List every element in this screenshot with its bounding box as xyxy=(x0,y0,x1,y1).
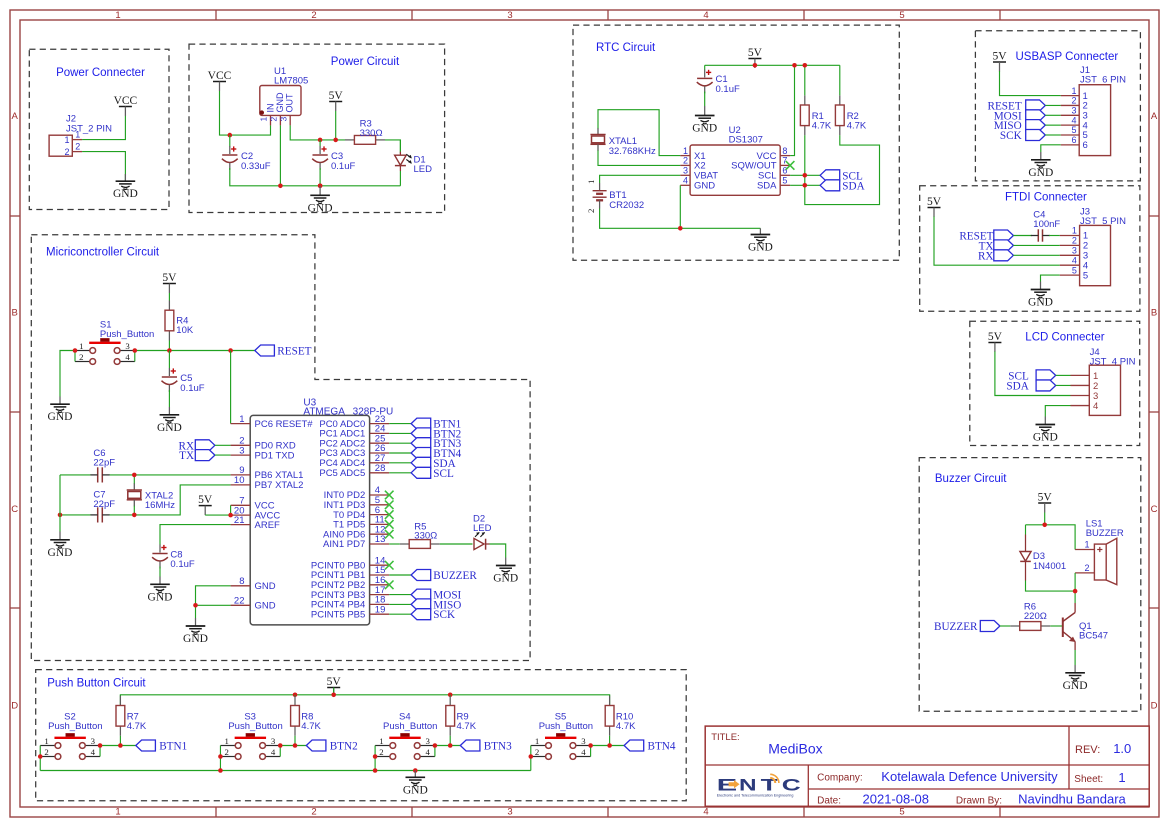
net flag RESET xyxy=(988,100,1046,112)
wire D3 bottom to collector node xyxy=(1026,581,1076,592)
svg-text:1: 1 xyxy=(75,130,80,140)
svg-text:5V: 5V xyxy=(927,196,942,208)
svg-text:10: 10 xyxy=(234,475,245,486)
svg-text:PC5 ADC5: PC5 ADC5 xyxy=(319,468,365,479)
diode D3 1N4001 xyxy=(1020,525,1066,581)
svg-text:RX: RX xyxy=(978,250,994,262)
svg-text:3: 3 xyxy=(581,736,586,746)
svg-text:Push_Button: Push_Button xyxy=(539,721,593,732)
wire R8 top xyxy=(294,695,296,696)
svg-text:5: 5 xyxy=(1083,270,1088,281)
junction xyxy=(803,173,808,178)
svg-text:3: 3 xyxy=(683,166,688,176)
svg-text:5V: 5V xyxy=(162,272,177,284)
wire S1 left to ground xyxy=(60,351,75,397)
wire button left drop xyxy=(39,757,41,771)
ground xyxy=(308,184,333,215)
wire RTC 5V rail xyxy=(705,64,840,66)
wire xyxy=(1013,254,1059,256)
resistor R7 4.7K xyxy=(116,696,147,736)
svg-text:T: T xyxy=(761,776,778,794)
svg-text:0.1uF: 0.1uF xyxy=(716,84,740,95)
svg-text:Power Circuit: Power Circuit xyxy=(331,56,400,68)
resistor R10 4.7K xyxy=(605,696,636,736)
region RTC Circuit xyxy=(573,25,899,260)
net flag SDA xyxy=(820,180,865,193)
ground xyxy=(48,532,73,559)
wire J3 pin5 to ground xyxy=(1041,275,1060,281)
svg-text:OUT: OUT xyxy=(284,93,294,113)
resistor R5 330R xyxy=(400,521,440,548)
speaker LS1 BUZZER xyxy=(1075,519,1124,585)
wire xyxy=(1045,124,1060,126)
region Push Button Circuit xyxy=(36,670,687,801)
crystal XTAL2 16MHz xyxy=(127,483,176,511)
svg-text:13: 13 xyxy=(375,534,386,545)
battery BT1 CR2032 xyxy=(586,180,644,213)
junction xyxy=(678,226,683,231)
svg-text:21: 21 xyxy=(234,515,245,526)
svg-text:AIN1 PD7: AIN1 PD7 xyxy=(323,539,365,550)
svg-text:GND: GND xyxy=(493,573,518,585)
svg-text:3: 3 xyxy=(1072,246,1077,256)
wire xyxy=(389,432,411,434)
wire R10 top xyxy=(609,695,611,696)
wire C3 to bottom rail xyxy=(319,168,321,186)
wire button to flag xyxy=(280,745,306,747)
no-connect xyxy=(385,510,394,519)
wire AREF to C8 xyxy=(160,525,231,545)
ground xyxy=(1033,417,1058,444)
junction xyxy=(218,768,223,773)
ground xyxy=(113,174,138,200)
5V net flag xyxy=(748,47,763,68)
svg-text:N: N xyxy=(739,776,757,794)
svg-text:1: 1 xyxy=(1071,86,1076,96)
svg-text:1: 1 xyxy=(1085,540,1090,550)
svg-text:2: 2 xyxy=(268,117,278,122)
5V net flag xyxy=(988,331,1003,352)
svg-text:Kotelawala Defence University: Kotelawala Defence University xyxy=(881,769,1058,784)
net flag SCL xyxy=(1008,370,1055,383)
ground xyxy=(1028,152,1053,179)
junction xyxy=(318,184,323,189)
svg-text:SDA: SDA xyxy=(757,181,777,192)
wire button left drop xyxy=(530,757,532,771)
svg-text:DS1307: DS1307 xyxy=(729,135,763,146)
svg-text:Date:: Date: xyxy=(817,795,841,806)
svg-text:4: 4 xyxy=(91,747,96,757)
wire U2 pin6 SCL to flag xyxy=(790,174,820,176)
push button S2 xyxy=(40,711,102,759)
5V net flag xyxy=(162,272,177,293)
svg-text:BUZZER: BUZZER xyxy=(934,621,978,633)
svg-text:3: 3 xyxy=(507,10,512,21)
net flag SDA xyxy=(411,457,456,470)
ground xyxy=(148,577,173,604)
capacitor C5 0.1uF xyxy=(162,351,205,395)
net flag BUZZER xyxy=(934,621,1000,634)
net flag SCK xyxy=(1000,130,1045,143)
net flag MISO xyxy=(994,120,1046,132)
wire reset to U3 pin1 xyxy=(230,351,232,424)
svg-text:USBASP Connecter: USBASP Connecter xyxy=(1016,51,1119,63)
ground xyxy=(403,771,428,797)
wire R3 to D1 xyxy=(385,140,400,154)
net flag BTN1 xyxy=(136,740,187,753)
junction xyxy=(228,133,233,138)
connector J2 JST_2 PIN xyxy=(49,114,112,158)
junction xyxy=(448,743,453,748)
LED D1 xyxy=(395,140,433,175)
svg-text:GND: GND xyxy=(113,188,138,200)
wire U2 pin5 SDA to flag xyxy=(790,184,820,186)
wire VCC to U1 pin1 xyxy=(220,91,271,135)
net flag TX xyxy=(979,240,1014,253)
junction xyxy=(373,768,378,773)
svg-text:LED: LED xyxy=(473,523,492,534)
resistor R1 4.7K xyxy=(800,95,832,135)
capacitor C3 0.1uF xyxy=(312,140,355,172)
ground xyxy=(1028,282,1053,309)
svg-text:SCK: SCK xyxy=(433,609,455,621)
svg-text:0.1uF: 0.1uF xyxy=(180,383,204,394)
svg-text:SCL: SCL xyxy=(433,468,454,480)
svg-text:RESET: RESET xyxy=(277,346,311,358)
junction xyxy=(413,768,418,773)
wire xyxy=(389,613,411,615)
svg-text:GND: GND xyxy=(694,181,715,192)
wire xyxy=(389,452,411,454)
svg-text:VCC: VCC xyxy=(208,70,232,82)
svg-text:2: 2 xyxy=(683,156,688,166)
region Power Circuit xyxy=(189,44,445,212)
svg-text:2: 2 xyxy=(379,747,383,757)
junction xyxy=(193,603,198,608)
wire Q1 emitter to ground xyxy=(1074,650,1076,665)
wire R9 bottom xyxy=(449,736,451,746)
svg-text:REV:: REV: xyxy=(1075,744,1100,756)
svg-text:2: 2 xyxy=(64,147,69,157)
5V net flag xyxy=(327,676,342,697)
svg-text:RTC Circuit: RTC Circuit xyxy=(596,42,656,54)
wire button left drop xyxy=(374,757,376,771)
region FTDI Connecter xyxy=(920,186,1140,311)
svg-text:Navindhu Bandara: Navindhu Bandara xyxy=(1018,792,1126,807)
svg-text:3: 3 xyxy=(239,445,244,456)
regulator U1 LM7805 xyxy=(259,66,309,125)
svg-text:22pF: 22pF xyxy=(93,499,115,510)
svg-text:1: 1 xyxy=(1072,226,1077,236)
svg-text:5: 5 xyxy=(899,10,904,21)
svg-text:6: 6 xyxy=(1083,140,1088,151)
wire xyxy=(389,594,411,596)
svg-text:1: 1 xyxy=(683,146,688,156)
svg-text:SDA: SDA xyxy=(1006,380,1028,392)
junction xyxy=(803,183,808,188)
svg-text:BC547: BC547 xyxy=(1079,631,1108,642)
junction xyxy=(218,754,223,759)
push button S3 xyxy=(220,711,282,759)
svg-text:3: 3 xyxy=(425,736,430,746)
wire U1 pin3 output xyxy=(290,125,345,139)
svg-text:3: 3 xyxy=(1071,106,1076,116)
net flag BTN4 xyxy=(624,740,676,753)
net flag TX xyxy=(179,450,215,463)
5V net flag xyxy=(927,196,942,217)
wire R7 top xyxy=(119,695,121,696)
junction xyxy=(433,743,438,748)
svg-text:330Ω: 330Ω xyxy=(414,531,437,542)
wire U1 pin2 down xyxy=(279,125,281,185)
junction xyxy=(588,743,593,748)
svg-text:Power Connecter: Power Connecter xyxy=(56,67,145,79)
svg-text:LED: LED xyxy=(414,164,433,175)
svg-text:5: 5 xyxy=(782,176,787,186)
svg-text:GND: GND xyxy=(1028,297,1053,309)
svg-text:BTN2: BTN2 xyxy=(330,741,358,753)
net flag MISO xyxy=(411,599,461,612)
wire D2 to ground xyxy=(490,544,506,558)
wire xyxy=(389,472,411,474)
svg-text:1: 1 xyxy=(239,414,244,425)
junction xyxy=(803,63,808,68)
svg-text:PC6 RESET#: PC6 RESET# xyxy=(255,419,314,430)
junction xyxy=(228,513,233,518)
capacitor C2 0.33uF xyxy=(222,135,271,172)
svg-text:5: 5 xyxy=(1071,125,1076,135)
junction xyxy=(529,754,534,759)
svg-text:22pF: 22pF xyxy=(93,458,115,469)
crystal XTAL1 32.768KHz xyxy=(590,128,656,157)
wire xyxy=(389,442,411,444)
wire buzzer top rail xyxy=(1026,513,1076,550)
svg-text:C: C xyxy=(782,776,801,794)
no-connect xyxy=(385,581,394,590)
svg-text:6: 6 xyxy=(1071,135,1076,145)
svg-text:1: 1 xyxy=(79,341,83,351)
junction xyxy=(792,63,797,68)
wire 5V to R4 xyxy=(168,293,170,301)
svg-text:1: 1 xyxy=(586,180,596,184)
svg-text:BUZZER: BUZZER xyxy=(433,570,477,582)
svg-text:PB7 XTAL2: PB7 XTAL2 xyxy=(255,480,304,491)
svg-text:Micriconctroller Circuit: Micriconctroller Circuit xyxy=(46,247,160,259)
svg-text:3: 3 xyxy=(125,341,130,351)
svg-text:1: 1 xyxy=(115,10,120,21)
title block xyxy=(705,726,1149,806)
svg-text:BTN4: BTN4 xyxy=(648,741,676,753)
wire xyxy=(1045,104,1060,106)
svg-text:4: 4 xyxy=(1071,115,1076,125)
svg-text:GND: GND xyxy=(1028,167,1053,179)
ground xyxy=(1063,665,1088,692)
wire R9 top xyxy=(449,695,451,696)
svg-text:Push_Button: Push_Button xyxy=(383,721,437,732)
resistor R9 4.7K xyxy=(446,696,477,736)
transistor Q1 BC547 xyxy=(1063,603,1108,650)
connector J3 JST_5 PIN xyxy=(1060,207,1126,286)
svg-text:VCC: VCC xyxy=(114,95,138,107)
wire button to flag xyxy=(591,745,625,747)
svg-text:16MHz: 16MHz xyxy=(145,500,175,511)
junction xyxy=(132,513,137,518)
resistor R6 220R xyxy=(1010,602,1050,631)
region Buzzer Circuit xyxy=(919,458,1141,712)
ground xyxy=(748,228,773,253)
wire R8 bottom xyxy=(294,736,296,746)
svg-text:2: 2 xyxy=(586,209,596,213)
junction xyxy=(228,348,233,353)
wire R2 top to rail xyxy=(839,65,841,95)
wire R1 bottom SCL/SDA loop xyxy=(805,135,880,204)
svg-text:2021-08-08: 2021-08-08 xyxy=(863,792,930,807)
resistor R8 4.7K xyxy=(291,696,322,736)
svg-text:2: 2 xyxy=(44,747,48,757)
svg-text:FTDI Connecter: FTDI Connecter xyxy=(1005,192,1087,204)
wire xyxy=(215,454,231,456)
svg-text:5V: 5V xyxy=(992,51,1007,63)
junction xyxy=(132,473,137,478)
wire xyxy=(389,423,411,425)
svg-text:Drawn By:: Drawn By: xyxy=(956,795,1002,806)
svg-text:4: 4 xyxy=(581,747,586,757)
svg-text:5V: 5V xyxy=(327,676,342,688)
wire 5V to J3 pin4 xyxy=(934,217,1060,266)
5V net flag xyxy=(329,90,344,111)
net flag RESET xyxy=(255,345,312,358)
connector J1 JST_6 PIN xyxy=(1061,65,1126,156)
svg-text:1: 1 xyxy=(379,736,383,746)
ground xyxy=(493,558,518,585)
net flag MOSI xyxy=(411,589,461,602)
wire xyxy=(1045,114,1060,116)
svg-text:220Ω: 220Ω xyxy=(1024,611,1047,622)
wire LS1 pin2 down xyxy=(1074,573,1076,603)
5V net flag xyxy=(198,494,213,515)
junction xyxy=(73,348,78,353)
no-connect xyxy=(385,520,394,529)
wire XTAL1 top to U2 pin1 X1 xyxy=(598,110,680,156)
junction xyxy=(331,693,336,698)
wire J2 pin1 to VCC xyxy=(82,116,125,140)
svg-text:1: 1 xyxy=(1118,770,1125,785)
connector J4 JST_4 PIN xyxy=(1071,347,1136,415)
svg-text:JST_6 PIN: JST_6 PIN xyxy=(1080,75,1126,86)
junction xyxy=(98,743,103,748)
svg-text:3: 3 xyxy=(507,807,512,818)
svg-text:Push Button Circuit: Push Button Circuit xyxy=(47,678,146,690)
svg-text:C: C xyxy=(11,504,18,515)
svg-text:4.7K: 4.7K xyxy=(812,121,832,132)
svg-text:GND: GND xyxy=(157,422,182,434)
svg-text:1: 1 xyxy=(115,807,120,818)
svg-text:4: 4 xyxy=(1072,255,1077,265)
5V net flag xyxy=(1038,492,1053,513)
svg-text:JST_2 PIN: JST_2 PIN xyxy=(66,124,112,135)
svg-text:5V: 5V xyxy=(1038,492,1053,504)
wire pin13 to R5 xyxy=(389,543,400,545)
svg-text:2: 2 xyxy=(225,747,229,757)
5V net flag xyxy=(992,51,1007,72)
wire C8 to ground xyxy=(159,567,161,577)
junction xyxy=(278,743,283,748)
wire D1 to bottom rail xyxy=(399,171,401,186)
junction xyxy=(318,138,323,143)
wire R1 top to rail xyxy=(804,65,806,95)
wire J4 pin4 to ground xyxy=(1045,406,1070,417)
net flag RX xyxy=(179,440,215,453)
junction xyxy=(118,743,123,748)
svg-text:GND: GND xyxy=(1033,432,1058,444)
svg-text:100nF: 100nF xyxy=(1033,219,1060,230)
svg-text:GND: GND xyxy=(48,547,73,559)
svg-text:Company:: Company: xyxy=(817,773,863,784)
wire 5V top rail xyxy=(120,688,609,706)
svg-text:4.7K: 4.7K xyxy=(127,721,147,732)
junction xyxy=(167,348,172,353)
wire xyxy=(1049,235,1060,237)
svg-text:32.768KHz: 32.768KHz xyxy=(609,146,656,157)
junction xyxy=(333,138,338,143)
svg-text:0.33uF: 0.33uF xyxy=(241,161,271,172)
net flag BTN3 xyxy=(411,438,462,451)
svg-text:7: 7 xyxy=(782,156,787,166)
svg-text:Sheet:: Sheet: xyxy=(1074,774,1103,785)
svg-text:4.7K: 4.7K xyxy=(457,721,477,732)
svg-text:GND: GND xyxy=(183,633,208,645)
svg-text:A: A xyxy=(12,111,19,122)
svg-text:TX: TX xyxy=(179,450,194,462)
svg-text:4: 4 xyxy=(1093,401,1098,412)
svg-text:6: 6 xyxy=(782,166,787,176)
net flag BUZZER xyxy=(411,570,477,583)
wire button left drop xyxy=(219,757,221,771)
svg-text:2: 2 xyxy=(535,747,539,757)
svg-text:1: 1 xyxy=(64,135,69,145)
IC U2 DS1307 xyxy=(680,125,790,195)
capacitor C7 22pF xyxy=(90,490,115,523)
svg-text:Buzzer Circuit: Buzzer Circuit xyxy=(935,473,1007,485)
net flag MOSI xyxy=(994,110,1046,123)
wire 5V to output net xyxy=(335,111,337,140)
net flag RESET xyxy=(959,230,1013,243)
junction xyxy=(1042,523,1047,528)
wire xyxy=(1056,374,1071,376)
wire BT1 bottom rail xyxy=(600,209,761,229)
svg-text:GND: GND xyxy=(255,601,276,612)
svg-text:4: 4 xyxy=(703,807,708,818)
svg-text:3: 3 xyxy=(91,736,96,746)
junction xyxy=(448,693,453,698)
svg-text:5: 5 xyxy=(1072,265,1077,275)
VCC net flag xyxy=(208,70,232,91)
svg-text:GND: GND xyxy=(308,202,333,214)
svg-text:2: 2 xyxy=(311,807,316,818)
region USBASP Connecter xyxy=(975,31,1140,181)
wire XTAL1 bottom to U2 pin2 X2 xyxy=(598,150,680,165)
svg-text:C: C xyxy=(1151,504,1158,515)
junction xyxy=(753,63,758,68)
wire R4 bottom to reset line xyxy=(168,341,170,351)
svg-text:8: 8 xyxy=(782,146,787,156)
svg-text:BTN3: BTN3 xyxy=(484,741,512,753)
svg-text:4.7K: 4.7K xyxy=(847,121,867,132)
junction xyxy=(607,743,612,748)
resistor R2 4.7K xyxy=(835,95,867,135)
svg-text:Electronic and Telecommunicati: Electronic and Telecommunication Enginee… xyxy=(717,793,794,797)
svg-text:0.1uF: 0.1uF xyxy=(170,559,194,570)
